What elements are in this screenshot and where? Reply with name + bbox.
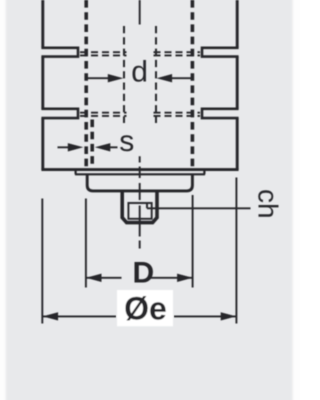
svg-text:s: s <box>119 125 134 158</box>
svg-text:D: D <box>132 257 154 290</box>
svg-text:Øe: Øe <box>124 291 167 327</box>
svg-text:ch: ch <box>252 189 283 219</box>
svg-text:d: d <box>131 56 148 89</box>
